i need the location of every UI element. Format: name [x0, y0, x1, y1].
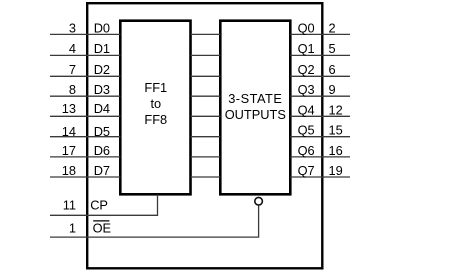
wire CP: [50, 195, 158, 216]
svg-text:OUTPUTS: OUTPUTS: [225, 107, 286, 122]
svg-text:D4: D4: [94, 101, 110, 116]
svg-text:Q0: Q0: [298, 20, 315, 35]
svg-text:FF1: FF1: [144, 80, 167, 95]
svg-text:19: 19: [329, 163, 343, 178]
wire D1 row: [50, 54, 350, 56]
wire D7 row: [50, 176, 350, 178]
wire D3 row: [50, 95, 350, 97]
svg-text:14: 14: [62, 124, 76, 139]
svg-text:D6: D6: [94, 143, 110, 158]
svg-text:6: 6: [329, 62, 336, 77]
svg-text:D0: D0: [94, 20, 110, 35]
wire OE: [50, 205, 259, 237]
svg-text:Q2: Q2: [298, 62, 315, 77]
svg-text:D7: D7: [94, 163, 110, 178]
svg-text:8: 8: [69, 82, 76, 97]
block 3-STATE OUTPUTS: [220, 21, 290, 195]
pin numbers right: [329, 20, 343, 178]
svg-text:3: 3: [69, 20, 76, 35]
svg-text:D3: D3: [94, 82, 110, 97]
wire D0 row: [50, 33, 350, 35]
svg-text:16: 16: [329, 143, 343, 158]
svg-text:Q6: Q6: [298, 143, 315, 158]
svg-text:OE: OE: [93, 221, 112, 236]
svg-text:to: to: [150, 96, 161, 111]
wire D5 row: [50, 136, 350, 138]
svg-text:D2: D2: [94, 62, 110, 77]
input labels: [90, 20, 111, 235]
svg-text:FF8: FF8: [144, 112, 167, 127]
outer IC boundary box: [87, 3, 322, 268]
wire D2 row: [50, 75, 350, 77]
svg-text:Q3: Q3: [298, 82, 315, 97]
output labels: [298, 20, 315, 178]
svg-text:D1: D1: [94, 41, 110, 56]
svg-text:13: 13: [62, 101, 76, 116]
svg-text:CP: CP: [90, 197, 108, 212]
svg-text:4: 4: [69, 41, 76, 56]
svg-text:9: 9: [329, 82, 336, 97]
svg-text:18: 18: [62, 163, 76, 178]
svg-text:11: 11: [63, 197, 76, 212]
svg-text:2: 2: [329, 20, 336, 35]
svg-text:17: 17: [62, 143, 76, 158]
svg-text:15: 15: [329, 123, 343, 138]
wire D6 row: [50, 156, 350, 158]
OE overline: [93, 220, 109, 222]
svg-text:1: 1: [69, 221, 76, 236]
svg-text:Q7: Q7: [298, 163, 315, 178]
svg-text:Q1: Q1: [298, 41, 315, 56]
3-state block text: [225, 91, 286, 122]
svg-text:Q5: Q5: [298, 123, 315, 138]
block FF1-FF8: [120, 21, 190, 195]
FF block text: [144, 80, 167, 127]
svg-text:5: 5: [329, 41, 336, 56]
inverter bubble on OE: [255, 197, 263, 205]
svg-text:7: 7: [69, 62, 76, 77]
svg-text:3-STATE: 3-STATE: [228, 91, 282, 106]
svg-text:D5: D5: [94, 124, 110, 139]
pin numbers left: [62, 20, 76, 235]
wire D4 row: [50, 115, 350, 117]
svg-text:Q4: Q4: [298, 102, 315, 117]
svg-text:12: 12: [329, 102, 343, 117]
